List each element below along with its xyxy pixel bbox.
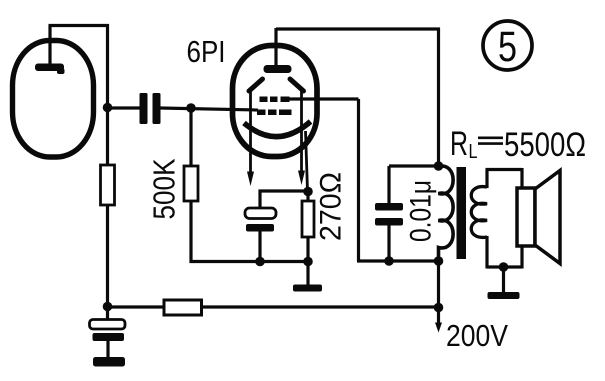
svg-text:5: 5 <box>498 23 517 71</box>
capacitor C2 bottom plate <box>93 333 125 341</box>
filament lead left with arrow <box>247 91 254 186</box>
wire 500K resistor leads <box>189 108 192 263</box>
transformer T1 core <box>457 167 467 259</box>
junction dot primary bottom <box>434 256 444 266</box>
svg-text:200V: 200V <box>446 318 508 353</box>
node A junction dot <box>103 103 113 113</box>
capacitor C3 cathode top plate <box>245 208 276 219</box>
svg-text:5500Ω: 5500Ω <box>504 126 586 164</box>
junction dot 270ohm on rail <box>303 257 313 267</box>
transformer T1 primary winding <box>439 166 454 261</box>
wire V1 plate top <box>49 26 110 65</box>
wire bottom supply rail <box>108 305 439 308</box>
resistor R3 filter body <box>164 300 202 315</box>
wire screen grid to right <box>288 99 359 261</box>
svg-text:6PI: 6PI <box>187 34 226 69</box>
grid G1 dashes lower row <box>257 110 292 116</box>
node B junction dot (grid node) <box>186 103 196 113</box>
tube V1 plate <box>35 64 65 75</box>
grid G2 dashes upper row <box>260 97 290 103</box>
annotation circle 5 <box>483 21 532 70</box>
resistor R1 500K body <box>184 166 198 201</box>
wire ground rail left segment <box>190 260 309 263</box>
wire 200V feed vertical <box>437 261 440 325</box>
label equals sign <box>478 138 503 144</box>
capacitor C3 cathode bottom plate <box>246 224 274 232</box>
resistor R2 plate load body <box>101 165 115 205</box>
beam plate left <box>249 79 263 91</box>
ground symbol speaker <box>488 292 520 299</box>
wire top rail to transformer <box>276 28 440 167</box>
wire secondary loop <box>486 168 523 269</box>
wire supply rail right segment <box>357 259 440 262</box>
wire ground stub <box>306 262 309 286</box>
resistor R4 270 body <box>302 201 314 237</box>
ground symbol center <box>293 285 322 292</box>
wire V2 plate lead <box>274 28 277 65</box>
wire cathode cap lead <box>258 190 261 264</box>
wire C1 to grid of V2 <box>160 108 258 110</box>
svg-text:0.01μ: 0.01μ <box>405 180 438 242</box>
speaker horn cone <box>535 171 560 264</box>
tube V1 envelope <box>13 41 94 158</box>
junction dot bottom left <box>103 302 113 312</box>
capacitor C4 0.01u plates <box>375 203 403 226</box>
filament lead right with arrow <box>298 91 305 185</box>
wire node A to coupling cap C1 <box>108 106 142 109</box>
capacitor C2 top plate <box>90 320 126 330</box>
junction dot supply bottom <box>434 303 444 313</box>
junction dot cathode node <box>303 187 313 197</box>
speaker driver body <box>517 188 535 246</box>
svg-text:R: R <box>450 125 468 163</box>
arrow 200V terminal <box>435 323 442 333</box>
svg-text:L: L <box>469 141 478 163</box>
capacitor C2 electrolytic lead <box>106 307 110 359</box>
junction dot cathode cap on rail <box>255 257 265 267</box>
wire left vertical from node A down to bottom rail <box>106 24 109 307</box>
junction dot speaker ground <box>499 262 509 272</box>
svg-text:500K: 500K <box>147 158 182 219</box>
cathode arc <box>244 122 311 137</box>
wire speaker ground lead <box>502 267 505 293</box>
junction dot 0.01 cap bottom <box>384 256 394 266</box>
beam plate right <box>290 79 304 91</box>
wire 270 resistor leads <box>306 191 309 262</box>
transformer T1 secondary winding <box>471 187 487 238</box>
wire cathode lead down <box>306 131 308 191</box>
tube V2 plate <box>264 65 292 73</box>
junction dot primary top <box>434 161 444 171</box>
ground symbol bottom left <box>93 357 125 367</box>
wire C4 leads <box>389 166 439 262</box>
svg-text:270Ω: 270Ω <box>315 172 348 241</box>
capacitor C1 plates <box>140 93 161 124</box>
wire cathode network horizontal <box>259 189 309 192</box>
tube V2 envelope 6PI <box>233 46 318 157</box>
